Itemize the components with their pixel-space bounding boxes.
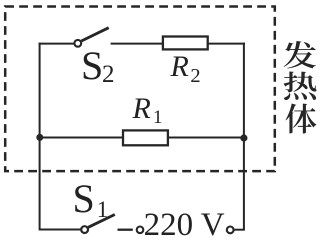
- label: heating-element text char 体: [286, 103, 317, 133]
- label R1: [132, 92, 163, 128]
- label R2: [170, 50, 201, 87]
- wire: bottom-left horizontal to switch S1: [39, 229, 81, 231]
- switch S1 (open): [81, 215, 115, 234]
- switch S2 (open): [74, 28, 108, 47]
- dashed boundary box of heating element enclosure: [5, 7, 275, 172]
- wire: right source terminal to right vertical branch: [234, 229, 245, 231]
- label: heating-element text char 热: [284, 71, 317, 100]
- label: 220 V source value: [144, 207, 225, 243]
- resistor R1 (box symbol): [123, 130, 168, 145]
- label S2: [81, 43, 114, 88]
- terminal: 220 V source left circle: [137, 227, 144, 234]
- resistor R2 (box symbol): [163, 37, 208, 50]
- node: right junction dot: [240, 134, 247, 141]
- label: heating-element text char 发: [283, 41, 315, 68]
- wire: middle branch from left node to R1: [40, 137, 123, 139]
- terminal: 220 V source right circle: [227, 227, 234, 234]
- wire: R1 to right junction node: [168, 137, 244, 139]
- wire: left vertical branch: [39, 43, 41, 230]
- node: left junction dot: [36, 134, 43, 141]
- wire: right vertical branch: [243, 43, 245, 230]
- svg-text:S2: S2: [81, 43, 114, 88]
- svg-text:R1: R1: [132, 92, 163, 128]
- wire: between switch S2 and resistor R2: [111, 43, 162, 45]
- wire: resistor R2 to right vertical: [208, 43, 245, 45]
- svg-text:220 V: 220 V: [144, 207, 225, 243]
- svg-text:R2: R2: [170, 50, 201, 87]
- svg-text:S1: S1: [73, 176, 109, 222]
- wire: stub between S1 and left source terminal: [118, 229, 133, 231]
- label S1: [73, 176, 109, 222]
- wire: top-left horizontal to switch S2: [39, 43, 74, 45]
